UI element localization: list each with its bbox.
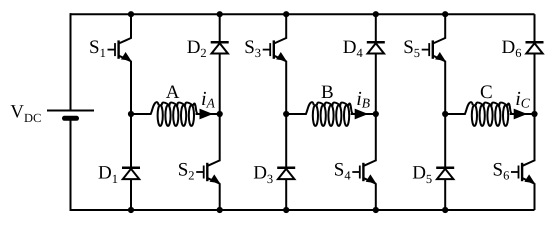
transistor S5 [422,38,446,61]
node top rail junction leg 4 [373,11,379,17]
battery V_DC negative plate [65,116,77,121]
transistor S3 [263,38,287,61]
transistor S4 [352,160,376,183]
wire leg 2 emitter-to-bottom-rail [219,183,221,210]
wire leg 6 emitter-to-bottom-rail [534,183,536,210]
wire left rail lower [70,118,72,211]
wire top rail [70,13,535,15]
node phase midpoint leg 1 [128,111,134,117]
wire leg 6 node-to-collector [534,114,536,161]
wire leg 4 diode-to-node [375,53,377,114]
battery V_DC positive plate [47,109,94,111]
wire leg 3 emitter-to-node [285,61,287,114]
node bottom rail junction leg 4 [373,207,379,213]
transistor S6 [511,160,535,183]
wire phase C node-to-coil [445,113,466,115]
svg-text:A: A [166,82,180,103]
node top rail junction leg 2 [217,11,223,17]
wire leg 1 collector-to-top-rail [130,14,132,39]
node bottom rail junction leg 5 [442,207,448,213]
node bottom rail junction leg 2 [217,207,223,213]
inductor phase C winding [465,102,513,126]
node phase midpoint leg 5 [442,111,448,117]
node top rail junction leg 5 [442,11,448,17]
node phase midpoint leg 2 [217,111,223,117]
node top rail junction leg 1 [128,11,134,17]
wire phase B coil-to-node [351,113,376,115]
wire phase A coil-to-node [196,113,220,115]
wire leg 5 node-to-diode [444,114,446,168]
wire leg 4 node-to-collector [375,114,377,161]
diode D2 [211,41,229,44]
wire phase B node-to-coil [286,113,307,115]
wire leg 6 diode-to-node [534,53,536,114]
diode D3 [277,167,295,170]
diode D1 [122,167,140,170]
node bottom rail junction leg 3 [283,207,289,213]
wire leg 5 diode-to-bottom-rail [444,179,446,210]
transistor S1 [108,38,132,61]
node bottom rail junction leg 1 [128,207,134,213]
svg-text:C: C [480,82,493,103]
wire leg 1 emitter-to-node [130,61,132,114]
current arrow i_C [514,109,528,120]
wire leg 6 top-rail-to-diode [534,14,536,42]
wire phase C coil-to-node [510,113,535,115]
wire leg 3 node-to-diode [285,114,287,168]
wire leg 1 diode-to-bottom-rail [130,179,132,210]
wire leg 2 top-rail-to-diode [219,14,221,42]
wire leg 4 emitter-to-bottom-rail [375,183,377,210]
node phase midpoint leg 3 [283,111,289,117]
inductor phase A winding [151,102,199,126]
wire leg 2 node-to-collector [219,114,221,161]
node phase midpoint leg 4 [373,111,379,117]
node phase midpoint leg 6 [531,111,537,117]
current arrow i_B [355,109,369,120]
svg-text:B: B [321,82,334,103]
current arrow i_A [200,109,214,120]
wire left rail upper [70,13,72,110]
wire bottom rail [70,209,535,211]
wire leg 4 top-rail-to-diode [375,14,377,42]
wire leg 5 emitter-to-node [444,61,446,114]
wire leg 3 diode-to-bottom-rail [285,179,287,210]
wire leg 5 collector-to-top-rail [444,14,446,39]
diode D5 [436,167,454,170]
diode D6 [526,41,544,44]
node top rail junction leg 3 [283,11,289,17]
wire phase A node-to-coil [131,113,152,115]
transistor S2 [196,160,220,183]
wire leg 3 collector-to-top-rail [285,14,287,39]
wire leg 1 node-to-diode [130,114,132,168]
inductor phase B winding [306,102,354,126]
wire leg 2 diode-to-node [219,53,221,114]
diode D4 [367,41,385,44]
